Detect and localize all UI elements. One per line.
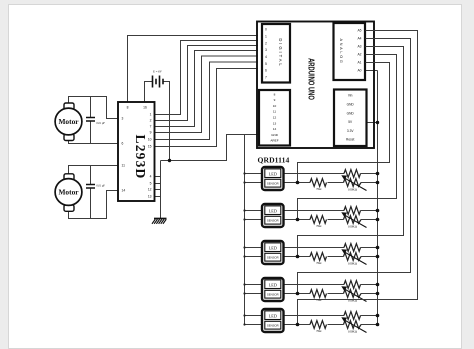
svg-text:LED: LED bbox=[269, 208, 277, 213]
resistor R4a LED 220 ohm bbox=[344, 281, 361, 289]
node sensor1 output junction bbox=[296, 181, 300, 185]
IC U1 L293D bbox=[118, 102, 155, 201]
svg-text:3.3V: 3.3V bbox=[347, 129, 354, 133]
svg-text:E = 6V: E = 6V bbox=[153, 70, 163, 74]
wire A5 from Arduino to sensor5 output bbox=[298, 31, 418, 325]
svg-text:A0: A0 bbox=[357, 69, 361, 73]
resistor R3b 70 ohm bbox=[310, 253, 327, 261]
wire 5V sensor supply bus bbox=[377, 71, 379, 325]
svg-text:GND: GND bbox=[347, 111, 355, 115]
svg-text:0: 0 bbox=[265, 28, 267, 32]
resistor R5c variable 100K ohm bbox=[344, 321, 362, 329]
svg-text:SENSOR: SENSOR bbox=[267, 324, 279, 328]
svg-text:GND: GND bbox=[271, 133, 279, 137]
wire A1 from Arduino to sensor1 output bbox=[298, 63, 390, 183]
node bus stub LED4 bbox=[243, 283, 245, 285]
wire A4 from Arduino to sensor4 output bbox=[298, 39, 411, 294]
node R1c to bus bbox=[376, 181, 380, 185]
svg-text:L293D: L293D bbox=[133, 134, 148, 179]
resistor R5b 70 ohm bbox=[310, 321, 327, 329]
svg-text:6: 6 bbox=[122, 142, 124, 146]
wire battery plus down to ground rail bbox=[163, 82, 170, 161]
arrow variable resistor 5 bbox=[341, 317, 366, 332]
battery E=6V bbox=[153, 76, 164, 88]
svg-text:70Ω: 70Ω bbox=[316, 329, 322, 333]
svg-text:0.01 µF: 0.01 µF bbox=[97, 122, 106, 125]
wire L293D pin10 to Arduino digital bbox=[155, 62, 259, 140]
node R5c to bus bbox=[376, 323, 380, 327]
arrow variable resistor 2 bbox=[341, 212, 366, 227]
svg-text:7: 7 bbox=[150, 125, 152, 129]
svg-text:14: 14 bbox=[122, 189, 126, 193]
svg-text:LED: LED bbox=[269, 245, 277, 250]
wire sensor2 LED line bbox=[285, 210, 378, 212]
wire sensor3 LED line bbox=[285, 247, 378, 249]
wire L293D pin7 to Arduino digital bbox=[155, 51, 259, 127]
motor M2 bbox=[55, 174, 82, 212]
svg-text:5: 5 bbox=[150, 182, 152, 186]
svg-text:11: 11 bbox=[122, 164, 126, 168]
svg-text:8: 8 bbox=[274, 92, 276, 96]
svg-text:A3: A3 bbox=[357, 45, 361, 49]
svg-text:4: 4 bbox=[265, 55, 267, 59]
svg-text:13: 13 bbox=[273, 121, 277, 125]
node R4c to bus bbox=[376, 292, 380, 296]
wire sensor4 LED line bbox=[285, 284, 378, 286]
svg-text:9: 9 bbox=[274, 98, 276, 102]
connector power header bbox=[334, 90, 367, 147]
sensor QRD1114 #4 bbox=[262, 278, 284, 301]
svg-text:15: 15 bbox=[148, 145, 152, 149]
connector digital header 0-7 bbox=[262, 24, 290, 83]
board Arduino UNO outline bbox=[257, 22, 374, 149]
svg-text:2: 2 bbox=[265, 41, 267, 45]
node bus stub SEN4 bbox=[243, 292, 245, 294]
node R2c to bus bbox=[376, 218, 380, 222]
svg-text:Motor: Motor bbox=[58, 117, 79, 126]
svg-text:8: 8 bbox=[127, 106, 129, 110]
capacitor C1 bbox=[86, 118, 95, 122]
wire L293D pin15 to Arduino digital bbox=[155, 69, 259, 147]
capacitor C1 leads bbox=[90, 97, 92, 144]
node sensor2 output junction bbox=[296, 218, 300, 222]
wire L293D pins 4,5,12,13 to ground bbox=[155, 161, 161, 220]
wire motor1 bottom to L293D pin6 bbox=[69, 140, 119, 144]
resistor R3c variable 100K ohm bbox=[344, 253, 362, 261]
wire L293D pin9 to Arduino digital bbox=[155, 56, 259, 133]
node bus stub SEN2 bbox=[243, 218, 245, 220]
resistor R3a LED 220 ohm bbox=[344, 244, 361, 252]
svg-text:GND: GND bbox=[347, 103, 355, 107]
svg-text:SENSOR: SENSOR bbox=[267, 256, 279, 260]
node bus stub LED2 bbox=[243, 209, 245, 211]
wire Arduino A0 to bus top bbox=[366, 70, 378, 72]
node sensor3 output junction bbox=[296, 255, 300, 259]
svg-text:2: 2 bbox=[150, 119, 152, 123]
resistor R2c variable 100K ohm bbox=[344, 216, 362, 224]
L293D pin labels bbox=[122, 106, 152, 199]
capacitor C2 bbox=[86, 185, 95, 189]
svg-text:SENSOR: SENSOR bbox=[267, 182, 279, 186]
svg-text:100KΩ: 100KΩ bbox=[348, 188, 358, 192]
svg-text:A2: A2 bbox=[357, 53, 361, 57]
svg-text:QRD1114: QRD1114 bbox=[258, 156, 290, 165]
svg-text:13: 13 bbox=[148, 195, 152, 199]
svg-text:A4: A4 bbox=[357, 37, 361, 41]
svg-text:ANALOG: ANALOG bbox=[339, 38, 343, 64]
svg-text:70Ω: 70Ω bbox=[316, 298, 322, 302]
wire sensor5 output line bbox=[285, 324, 378, 326]
svg-text:LED: LED bbox=[269, 313, 277, 318]
wire sensor2 output line bbox=[285, 219, 378, 221]
svg-text:14: 14 bbox=[273, 127, 277, 131]
svg-text:SENSOR: SENSOR bbox=[267, 219, 279, 223]
svg-text:LED: LED bbox=[269, 282, 277, 287]
svg-text:3: 3 bbox=[122, 117, 124, 121]
wire motor2 top to L293D pin11 bbox=[69, 166, 119, 175]
resistor R1b 70 ohm bbox=[310, 179, 327, 187]
sensor QRD1114 #3 bbox=[262, 241, 284, 264]
svg-text:70Ω: 70Ω bbox=[316, 261, 322, 265]
svg-text:11: 11 bbox=[273, 110, 276, 114]
svg-text:10: 10 bbox=[273, 104, 277, 108]
svg-text:ARDUINO UNO: ARDUINO UNO bbox=[306, 58, 317, 100]
wire sensor3 output line bbox=[285, 256, 378, 258]
svg-text:5: 5 bbox=[265, 62, 267, 66]
resistor R5a LED 220 ohm bbox=[344, 312, 361, 320]
wire motor2 bottom to L293D pin14 bbox=[69, 191, 119, 219]
node R5a to bus bbox=[376, 314, 380, 318]
wire Arduino 5V to sensor bus bbox=[367, 122, 378, 124]
svg-text:100KΩ: 100KΩ bbox=[348, 262, 358, 266]
wire GND bus to sensors bbox=[245, 135, 263, 325]
wire sensor1 output line bbox=[285, 182, 378, 184]
connector analog header A0-A5 bbox=[334, 23, 366, 80]
svg-text:100KΩ: 100KΩ bbox=[348, 330, 358, 334]
arrow variable resistor 1 bbox=[341, 175, 366, 190]
node R3a to bus bbox=[376, 246, 380, 250]
resistor R2a LED 220 ohm bbox=[344, 207, 361, 215]
arrow variable resistor 3 bbox=[341, 249, 366, 264]
wire ground rail to Arduino GND bbox=[161, 135, 260, 161]
svg-text:LED: LED bbox=[269, 171, 277, 176]
svg-text:100KΩ: 100KΩ bbox=[348, 225, 358, 229]
svg-text:Motor: Motor bbox=[58, 188, 79, 197]
wire battery minus to L293D pin16 bbox=[145, 82, 153, 103]
arrow variable resistor 4 bbox=[341, 286, 366, 301]
svg-text:1: 1 bbox=[265, 35, 267, 39]
node R1a to bus bbox=[376, 172, 380, 176]
svg-text:70Ω: 70Ω bbox=[316, 224, 322, 228]
wire sensor4 output line bbox=[285, 293, 378, 295]
svg-text:Reset: Reset bbox=[346, 138, 354, 142]
wire A2 from Arduino to sensor2 output bbox=[298, 55, 397, 220]
svg-text:A1: A1 bbox=[357, 61, 361, 65]
svg-text:12: 12 bbox=[148, 188, 152, 192]
node sensor4 output junction bbox=[296, 292, 300, 296]
ground bbox=[152, 219, 167, 224]
wire sensor1 LED line bbox=[285, 173, 378, 175]
svg-text:1: 1 bbox=[150, 113, 152, 117]
svg-text:3: 3 bbox=[265, 48, 267, 52]
svg-text:4: 4 bbox=[150, 175, 152, 179]
node bus stub LED5 bbox=[243, 314, 245, 316]
node bus stub SEN5 bbox=[243, 323, 245, 325]
svg-text:Vin: Vin bbox=[348, 94, 353, 98]
wire motor1 top to L293D pin3 bbox=[69, 97, 119, 119]
svg-text:9: 9 bbox=[150, 131, 152, 135]
node R4a to bus bbox=[376, 283, 380, 287]
node bus stub LED1 bbox=[243, 172, 245, 174]
node battery plus junction bbox=[168, 159, 171, 162]
resistor R4b 70 ohm bbox=[310, 290, 327, 298]
resistor R4c variable 100K ohm bbox=[344, 290, 362, 298]
sensor QRD1114 #5 bbox=[262, 309, 284, 332]
resistor R1a LED 220 ohm bbox=[344, 170, 361, 178]
svg-text:0.01 µF: 0.01 µF bbox=[97, 185, 106, 188]
node bus stub SEN1 bbox=[243, 181, 245, 183]
svg-text:70Ω: 70Ω bbox=[316, 187, 322, 191]
node sensor5 output junction bbox=[296, 323, 300, 327]
node R3c to bus bbox=[376, 255, 380, 259]
wire sensor5 LED line bbox=[285, 315, 378, 317]
wire L293D pin8 to Arduino D0 bbox=[128, 36, 259, 103]
node 5V junction bbox=[376, 121, 379, 124]
node bus stub SEN3 bbox=[243, 255, 245, 257]
svg-text:10: 10 bbox=[148, 138, 152, 142]
svg-text:12: 12 bbox=[273, 116, 277, 120]
wire A3 from Arduino to sensor3 output bbox=[298, 47, 404, 257]
svg-text:AREF: AREF bbox=[270, 139, 278, 143]
sensor QRD1114 #1 bbox=[262, 167, 284, 190]
capacitor C2 leads bbox=[90, 166, 92, 219]
svg-text:SENSOR: SENSOR bbox=[267, 293, 279, 297]
wire L293D pin2 to Arduino digital bbox=[155, 46, 259, 121]
svg-text:DIGITAL: DIGITAL bbox=[278, 38, 283, 67]
resistor R2b 70 ohm bbox=[310, 216, 327, 224]
motor M1 bbox=[55, 103, 82, 141]
svg-text:A5: A5 bbox=[357, 29, 361, 33]
svg-text:6: 6 bbox=[265, 69, 267, 73]
svg-text:7: 7 bbox=[265, 76, 267, 80]
resistor R1c variable 100K ohm bbox=[344, 179, 362, 187]
wire L293D pin1 to Arduino digital bbox=[155, 41, 259, 115]
node bus stub LED3 bbox=[243, 246, 245, 248]
node R2a to bus bbox=[376, 209, 380, 213]
connector digital header 8-AREF bbox=[259, 90, 290, 146]
sensor QRD1114 #2 bbox=[262, 204, 284, 227]
svg-text:16: 16 bbox=[143, 106, 147, 110]
